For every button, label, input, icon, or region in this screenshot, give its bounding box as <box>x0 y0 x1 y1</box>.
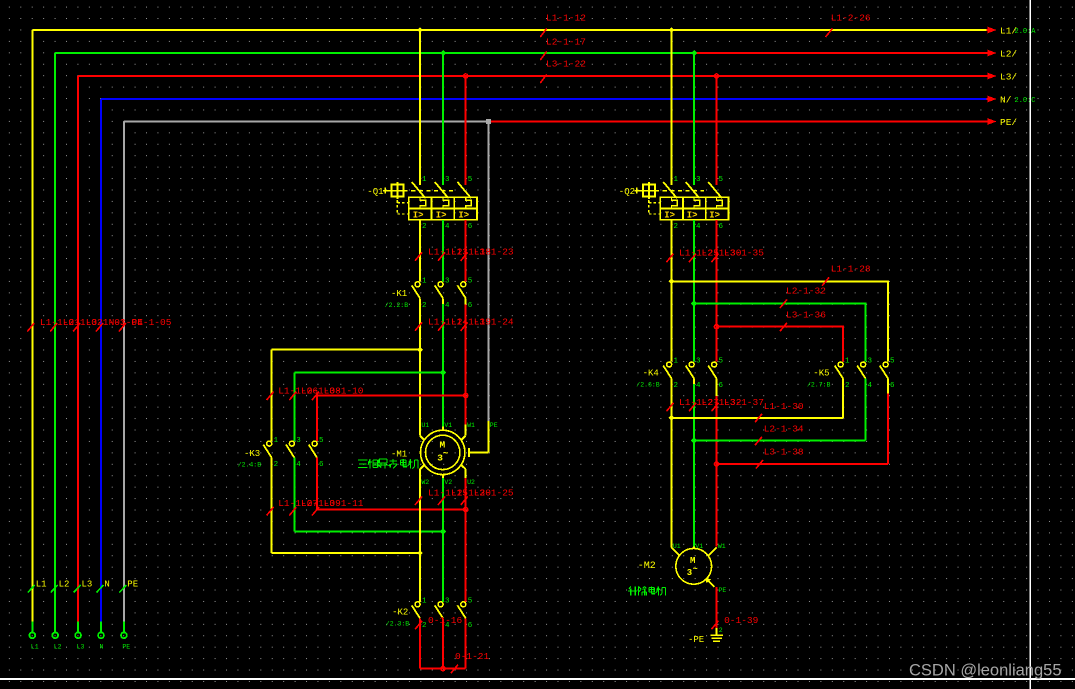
svg-text:1: 1 <box>674 176 679 184</box>
contactor K4 blade pin 3-4 <box>686 366 694 379</box>
svg-text:CSDN @leonliang55: CSDN @leonliang55 <box>909 662 1062 680</box>
svg-text:-K5: -K5 <box>813 369 829 379</box>
contactor K5 blade pin 3-4 <box>857 366 865 379</box>
svg-text:L2-1-34: L2-1-34 <box>764 423 804 434</box>
wire PE vertical drop (gray) <box>488 122 490 422</box>
svg-text:1: 1 <box>422 176 427 184</box>
breaker Q2 thermal element pole 3 <box>717 197 723 208</box>
svg-text:3: 3 <box>868 358 873 366</box>
wire K3 branch phase1 horizontal <box>272 349 420 351</box>
contactor K5 fixed contact circle pin 3 <box>861 362 866 367</box>
contactor K1 blade pin 5-6 <box>457 285 465 298</box>
wire M1 W2 down (yellow) <box>419 469 421 602</box>
motor M1 lead W1 diagonal <box>461 436 466 441</box>
label M2 chinese 升降电机 <box>628 587 666 596</box>
svg-text:/2.2:B: /2.2:B <box>385 302 409 309</box>
terminal circle L1 <box>29 632 35 638</box>
wire K3 pole1 output <box>271 458 273 553</box>
breaker Q1 pole blade 3 <box>435 182 449 198</box>
svg-text:4: 4 <box>296 461 301 469</box>
svg-text:4: 4 <box>696 382 701 390</box>
arrow L1 bus right <box>987 29 989 31</box>
breaker Q2 operator link line <box>634 190 643 192</box>
breaker Q1 linkage dashed line <box>404 190 454 192</box>
svg-text:2.0:A: 2.0:A <box>1015 28 1037 36</box>
svg-text:3: 3 <box>445 598 450 606</box>
wire L3 to Q1 pin5 <box>465 76 467 185</box>
breaker Q2 pole blade 5 <box>708 182 722 198</box>
breaker Q2 pole blade 1 <box>663 182 677 198</box>
svg-text:V1: V1 <box>695 543 703 550</box>
svg-text:L3-1-23: L3-1-23 <box>474 246 514 257</box>
svg-text:4: 4 <box>445 223 450 231</box>
svg-text:/2.7:B: /2.7:B <box>807 381 831 388</box>
junction L1/Q2 feed <box>669 27 674 32</box>
motor M1 lead W1 segment <box>465 424 467 435</box>
label left feeder wire numbers (overlapped) <box>40 317 172 328</box>
wire K5 feed phase1 horizontal+down (yellow) <box>672 281 889 361</box>
svg-text:3: 3 <box>296 437 301 445</box>
label wire numbers Q2-K4 (overlapped) <box>679 248 764 259</box>
breaker Q2 thermal element pole 2 <box>694 197 700 208</box>
wire M1 U2 down (red) <box>465 478 467 602</box>
svg-text:5: 5 <box>719 176 724 184</box>
label wire numbers K3 feeds (overlapped) <box>278 386 364 397</box>
svg-text:5: 5 <box>719 358 724 366</box>
svg-text:L1: L1 <box>36 580 47 590</box>
wire L1 bus horizontal (yellow) <box>32 29 986 31</box>
leader slashes M1 bottom <box>415 497 468 506</box>
breaker Q1 trip unit box <box>409 197 477 220</box>
svg-text:1: 1 <box>274 437 279 445</box>
wire K1 pin4 stub <box>442 298 444 304</box>
motor M2 PE diagonal <box>708 580 715 587</box>
svg-text:-K4: -K4 <box>643 369 659 379</box>
svg-text:L2: L2 <box>59 580 70 590</box>
contactor K1 fixed contact circle pin 3 <box>438 282 443 287</box>
contactor K4 fixed contact circle pin 1 <box>667 362 672 367</box>
wire K2 star bar <box>420 668 466 670</box>
svg-text:2: 2 <box>422 302 427 310</box>
leader slashes K3 feeds <box>267 392 319 401</box>
motor M1 bottom lead V2 stub <box>442 475 444 478</box>
svg-text:0-1-16: 0-1-16 <box>428 615 463 626</box>
svg-text:W2: W2 <box>421 479 429 486</box>
motor M2 lead U1 diagonal <box>672 548 680 556</box>
wire Q2 pin6 down (red) <box>716 220 718 362</box>
motor M1 bottom lead W2 diagonal <box>420 465 425 470</box>
wire L2 to Q1 pin3 <box>442 53 444 185</box>
wire N bus horizontal (blue) <box>101 98 987 100</box>
junction K3 out phase3 <box>464 508 468 512</box>
wire K3 out phase2 horizontal <box>294 531 443 533</box>
wire L1 feeder green tail <box>31 622 33 633</box>
junction K5 feed phase2 <box>691 300 697 306</box>
svg-text:6: 6 <box>468 622 473 630</box>
leader slash L2-1-17 <box>540 52 546 61</box>
wire K3 out phase1 horizontal <box>272 552 420 554</box>
svg-text:2: 2 <box>674 382 679 390</box>
svg-text:6: 6 <box>719 382 724 390</box>
junction L2/Q2 feed <box>691 50 697 56</box>
wire K1 pin6 stub <box>465 298 467 304</box>
wire K5 feed phase3 horizontal+down (red) <box>717 327 844 362</box>
leader slash 0-1-16 <box>415 621 422 630</box>
leader slashes left feeders <box>27 323 126 332</box>
svg-text:6: 6 <box>468 223 473 231</box>
wire L3 to Q2 pin5 <box>716 76 718 185</box>
svg-text:3: 3 <box>445 176 450 184</box>
leader slashes Q2-K4 <box>667 254 719 263</box>
wire K5 pin6 stub <box>887 379 889 394</box>
motor M1 inner circle <box>426 435 460 469</box>
contactor K4 blade pin 1-2 <box>663 366 671 379</box>
junction PE drop <box>486 119 491 124</box>
svg-text:1: 1 <box>422 598 427 606</box>
breaker Q2 label tick <box>636 188 638 194</box>
wire PE feeder green tail <box>123 622 125 633</box>
wire Q1 pin6 to K1 <box>465 220 467 282</box>
junction K5 out phase2 <box>691 438 697 444</box>
wire K5 out phase2 horizontal (green) <box>694 440 866 442</box>
svg-text:~: ~ <box>443 449 448 459</box>
svg-text:6: 6 <box>319 461 324 469</box>
svg-text:4: 4 <box>696 223 701 231</box>
svg-text:I>: I> <box>709 210 720 220</box>
contactor K4 fixed contact circle pin 5 <box>712 362 717 367</box>
svg-text:L1-2-26: L1-2-26 <box>831 13 871 24</box>
wire L3 bus horizontal (red) <box>78 75 986 77</box>
terminal circle L2 <box>52 632 58 638</box>
svg-text:I>: I> <box>436 210 447 220</box>
wire K1 pin2 down (yellow) <box>419 298 421 435</box>
wire Q1 pin4 to K1 <box>442 220 444 282</box>
junction K2 star point <box>441 667 445 671</box>
junction L1/Q1 feed <box>417 27 422 32</box>
junction K3 out phase1 <box>417 550 423 556</box>
svg-text:V1: V1 <box>444 422 452 429</box>
svg-text:1: 1 <box>674 358 679 366</box>
contactor K4 blade pin 5-6 <box>708 366 716 379</box>
junction K5 out phase1 <box>669 415 675 421</box>
contactor K2 blade pin 3-4 <box>435 605 443 618</box>
contactor K1 blade pin 3-4 <box>435 285 443 298</box>
svg-text:-PE: -PE <box>688 635 704 645</box>
wire L2 feeder green tail <box>54 622 56 633</box>
svg-text:N/: N/ <box>1000 95 1012 106</box>
leader slashes Q1-K1 <box>415 252 468 260</box>
motor M1 lead U1 diagonal <box>420 436 425 441</box>
svg-text:3: 3 <box>696 358 701 366</box>
wire N feeder green tail <box>100 622 102 633</box>
svg-text:3: 3 <box>687 568 692 578</box>
junction K3 branch phase3 <box>464 393 468 397</box>
svg-text:I>: I> <box>458 210 469 220</box>
contactor K2 fixed contact circle pin 5 <box>461 602 466 607</box>
svg-text:L3: L3 <box>82 580 93 590</box>
wire K5 pin6 down (red) <box>887 394 889 464</box>
svg-text:L3-1-22: L3-1-22 <box>546 59 586 70</box>
leader slash 0-1-39 <box>711 621 718 630</box>
svg-text:L1: L1 <box>31 644 39 651</box>
wire K5 pin2 down (yellow) <box>842 379 844 418</box>
svg-text:L1-1-12: L1-1-12 <box>546 13 586 24</box>
wire PE bus horizontal left (gray) <box>124 121 489 123</box>
motor M2 lead V1 stub <box>693 546 695 548</box>
wire L2 to Q2 pin3 <box>693 53 695 185</box>
leader slash L1-2-26 <box>826 29 833 38</box>
wire K3 pole1 feed <box>271 350 273 441</box>
svg-text:L3-1-38: L3-1-38 <box>764 447 804 458</box>
svg-text:-K1: -K1 <box>391 289 407 299</box>
leader slash at L3 terminal <box>74 585 81 593</box>
svg-text:3: 3 <box>696 176 701 184</box>
svg-text:2: 2 <box>845 382 850 390</box>
svg-text:I>: I> <box>687 210 698 220</box>
wire K3 branch phase3 horizontal <box>317 395 466 397</box>
wire K2 pin2 down (red) <box>419 618 421 668</box>
ground symbol <box>710 628 723 641</box>
wire M1 V2 down (green) <box>442 478 444 602</box>
breaker Q1 pole blade 5 <box>457 182 471 198</box>
wire K1 pin6 down (red) <box>465 304 467 424</box>
leader slash L1-1-28 <box>822 277 829 286</box>
svg-text:-K3: -K3 <box>244 449 260 459</box>
arrow N bus right <box>987 98 989 100</box>
svg-text:PE: PE <box>490 422 498 429</box>
svg-text:1: 1 <box>845 358 850 366</box>
svg-text:L3-1-24: L3-1-24 <box>474 316 514 327</box>
wire K4 pin4 stub <box>693 379 695 385</box>
leader slash at L2 terminal <box>51 585 58 593</box>
svg-text:L3-1-36: L3-1-36 <box>786 310 826 321</box>
breaker Q1 operator link line <box>383 190 392 192</box>
leader slash at N terminal <box>97 585 104 593</box>
breaker Q1 pole blade 1 <box>412 182 426 198</box>
arrow L3 bus right <box>987 75 989 77</box>
svg-text:PE: PE <box>719 587 727 594</box>
terminal circle L3 <box>75 632 81 638</box>
label wire numbers K1 outputs (overlapped) <box>428 316 514 327</box>
leader slash L3-1-36 <box>780 323 787 332</box>
svg-text:-M2: -M2 <box>638 561 656 572</box>
svg-text:6: 6 <box>719 223 724 231</box>
svg-text:2: 2 <box>719 627 723 634</box>
svg-text:L1-1-28: L1-1-28 <box>831 263 871 274</box>
wire K2 pin4 down (red) <box>442 618 444 668</box>
leader slash L3-1-22 <box>540 75 546 84</box>
svg-text:L2-1-17: L2-1-17 <box>546 37 586 48</box>
contactor K5 blade pin 1-2 <box>835 366 843 379</box>
leader slashes K4 outputs <box>667 403 719 412</box>
svg-text:-Q2: -Q2 <box>619 187 635 197</box>
wire Q2 pin4 down (green) <box>693 220 695 362</box>
breaker Q1 trip linkage dashed bracket <box>397 200 408 214</box>
terminal circle N <box>98 632 104 638</box>
wire L3 left vertical feeder <box>77 76 79 622</box>
junction L2/Q1 feed <box>440 50 446 56</box>
wire K4 pin6 down (red) <box>716 396 718 547</box>
svg-text:5: 5 <box>468 598 473 606</box>
svg-text:L1-1-30: L1-1-30 <box>764 401 804 412</box>
breaker Q2 linkage dashed line <box>655 190 704 192</box>
junction L3/Q1 feed <box>464 74 468 78</box>
contactor K3 fixed contact circle pin 3 <box>289 441 294 446</box>
contactor K2 blade pin 1-2 <box>412 605 420 618</box>
svg-text:W1: W1 <box>467 422 475 429</box>
junction K3 branch phase1 <box>417 347 423 353</box>
svg-text:4: 4 <box>868 382 873 390</box>
svg-text:2: 2 <box>422 622 427 630</box>
contactor K3 fixed contact circle pin 1 <box>267 441 272 446</box>
label M1 chinese 三相异步电机 <box>358 459 418 469</box>
svg-text:2: 2 <box>422 223 427 231</box>
svg-text:5: 5 <box>468 176 473 184</box>
motor M2 text 3~ <box>687 564 698 578</box>
svg-text:5: 5 <box>319 437 324 445</box>
wire L1 to Q1 pin1 <box>419 30 421 185</box>
motor M1 outer circle <box>421 430 465 474</box>
leader slashes K1 outputs <box>415 322 468 331</box>
wire K3 pole3 feed <box>316 396 318 442</box>
motor M2 PE arrowhead <box>705 578 711 583</box>
svg-text:PE/: PE/ <box>1000 117 1017 128</box>
svg-text:~: ~ <box>693 564 698 574</box>
breaker Q1 thermal element pole 1 <box>420 197 426 208</box>
svg-text:L3-1-10: L3-1-10 <box>324 386 364 397</box>
breaker Q2 operator crossed box <box>643 182 655 199</box>
breaker Q1 thermal element pole 2 <box>443 197 449 208</box>
svg-text:-K2: -K2 <box>392 608 408 618</box>
contactor K2 fixed contact circle pin 1 <box>415 602 420 607</box>
wire K4 pin2 down (yellow) <box>671 379 673 548</box>
svg-text:L3-1-35: L3-1-35 <box>724 248 764 259</box>
contactor K3 blade pin 5-6 <box>309 445 317 458</box>
leader slashes K3 outputs <box>267 507 319 516</box>
wire PE bus horizontal right (red) <box>489 121 987 123</box>
contactor K1 fixed contact circle pin 1 <box>415 282 420 287</box>
wire M1 PE vertical (yellow) <box>488 421 490 453</box>
motor M1 text 3~ <box>437 449 448 464</box>
wire Q2 pin2 down (yellow) <box>671 220 673 362</box>
svg-text:PE: PE <box>127 580 138 590</box>
contactor K5 fixed contact circle pin 5 <box>883 362 888 367</box>
svg-text:L3-1-37: L3-1-37 <box>724 397 764 408</box>
contactor K4 fixed contact circle pin 3 <box>689 362 694 367</box>
wire N left vertical feeder <box>100 99 102 622</box>
junction K5 out phase3 <box>714 462 718 466</box>
wire PE left vertical feeder <box>123 122 125 622</box>
wire L2 bus horizontal right (red) <box>694 52 987 54</box>
wire L1 to Q2 pin1 <box>671 30 673 185</box>
contactor K1 fixed contact circle pin 5 <box>461 282 466 287</box>
arrow L2 bus right <box>987 52 989 54</box>
wire M1 PE horizontal <box>470 451 488 453</box>
wire K5 pin4 down (green) <box>865 379 867 441</box>
svg-text:6: 6 <box>468 302 473 310</box>
wire K3 out phase3 horizontal <box>317 509 466 511</box>
motor M2 lead W1 diagonal <box>708 548 716 556</box>
wire K3 pole3 output <box>316 458 318 510</box>
wire M2 PE down (red) <box>715 587 717 628</box>
svg-text:N: N <box>100 644 104 651</box>
junction K5 feed phase1 <box>669 279 675 285</box>
wire Q1 pin2 to K1 <box>419 220 421 282</box>
svg-text:U2: U2 <box>467 479 475 486</box>
svg-text:2: 2 <box>674 223 679 231</box>
leader slash L1-1-30 <box>755 414 762 423</box>
svg-text:L2: L2 <box>54 644 62 651</box>
svg-text:-M1: -M1 <box>391 450 407 460</box>
svg-text:U1: U1 <box>673 543 681 550</box>
wire K5 out phase3 horizontal (red) <box>717 463 889 465</box>
breaker Q2 trip linkage dashed bracket <box>649 200 660 214</box>
label wire numbers K4 outputs (overlapped) <box>679 397 764 408</box>
wire L1 left vertical feeder <box>31 30 33 622</box>
breaker Q1 thermal element pole 3 <box>466 197 472 208</box>
svg-text:L3-1-11: L3-1-11 <box>324 498 364 509</box>
junction L3/Q2 feed <box>714 74 718 78</box>
wire L3 feeder green tail <box>77 622 79 633</box>
label wire numbers Q1-K1 (overlapped) <box>428 246 514 257</box>
svg-text:I>: I> <box>664 210 675 220</box>
svg-text:L3-1-25: L3-1-25 <box>474 488 514 499</box>
wire K3 pole2 feed <box>293 373 295 441</box>
wire L2 bus horizontal left (green) <box>55 52 694 54</box>
junction K5 feed phase3 <box>714 325 718 329</box>
junction K3 out phase2 <box>440 529 446 535</box>
wire K4 pin4 down (green) <box>693 384 695 546</box>
leader slash L1-1-12 <box>540 29 546 38</box>
svg-text:1: 1 <box>422 278 427 286</box>
svg-text:-Q1: -Q1 <box>367 187 383 197</box>
svg-text:3: 3 <box>445 278 450 286</box>
wire K5 out phase1 horizontal (yellow) <box>672 417 844 419</box>
svg-text:/2.4:B: /2.4:B <box>238 462 262 469</box>
contactor K3 blade pin 1-2 <box>263 445 271 458</box>
svg-text:2: 2 <box>274 461 279 469</box>
wire M1 U2 down stub <box>465 469 467 478</box>
junction K3 branch phase2 <box>440 369 446 375</box>
wire K3 pole2 output <box>293 458 295 532</box>
wire K4 pin6 stub <box>716 379 718 396</box>
contactor K3 fixed contact circle pin 5 <box>312 441 317 446</box>
motor M1 lead V1 stub <box>442 427 444 431</box>
wire K5 feed phase2 horizontal+down (green) <box>694 304 866 362</box>
label wire numbers K3 outputs (overlapped) <box>278 498 364 509</box>
svg-text:0-1-21: 0-1-21 <box>455 651 490 662</box>
svg-text:V2: V2 <box>444 479 452 486</box>
wire K2 pin6 down (red) <box>465 618 467 668</box>
svg-text:2.0:C: 2.0:C <box>1015 97 1036 105</box>
leader slash L3-1-38 <box>756 460 763 469</box>
svg-text:L3: L3 <box>77 644 85 651</box>
arrow PE bus right <box>987 121 989 123</box>
contactor K5 blade pin 5-6 <box>880 366 888 379</box>
contactor K5 fixed contact circle pin 1 <box>838 362 843 367</box>
contactor K3 blade pin 3-4 <box>286 445 294 458</box>
svg-text:0-1-39: 0-1-39 <box>724 615 759 626</box>
breaker Q1 operator crossed box <box>391 182 403 199</box>
leader slash L2-1-34 <box>755 437 762 446</box>
motor M1 bottom lead U2 diagonal <box>461 465 466 470</box>
svg-text:L2/: L2/ <box>1000 49 1017 60</box>
motor M2 circle <box>676 548 712 584</box>
terminal circle PE <box>121 632 127 638</box>
svg-text:/2.3:B: /2.3:B <box>386 620 410 627</box>
svg-text:6: 6 <box>890 382 895 390</box>
leader slash at L1 terminal <box>28 585 35 593</box>
